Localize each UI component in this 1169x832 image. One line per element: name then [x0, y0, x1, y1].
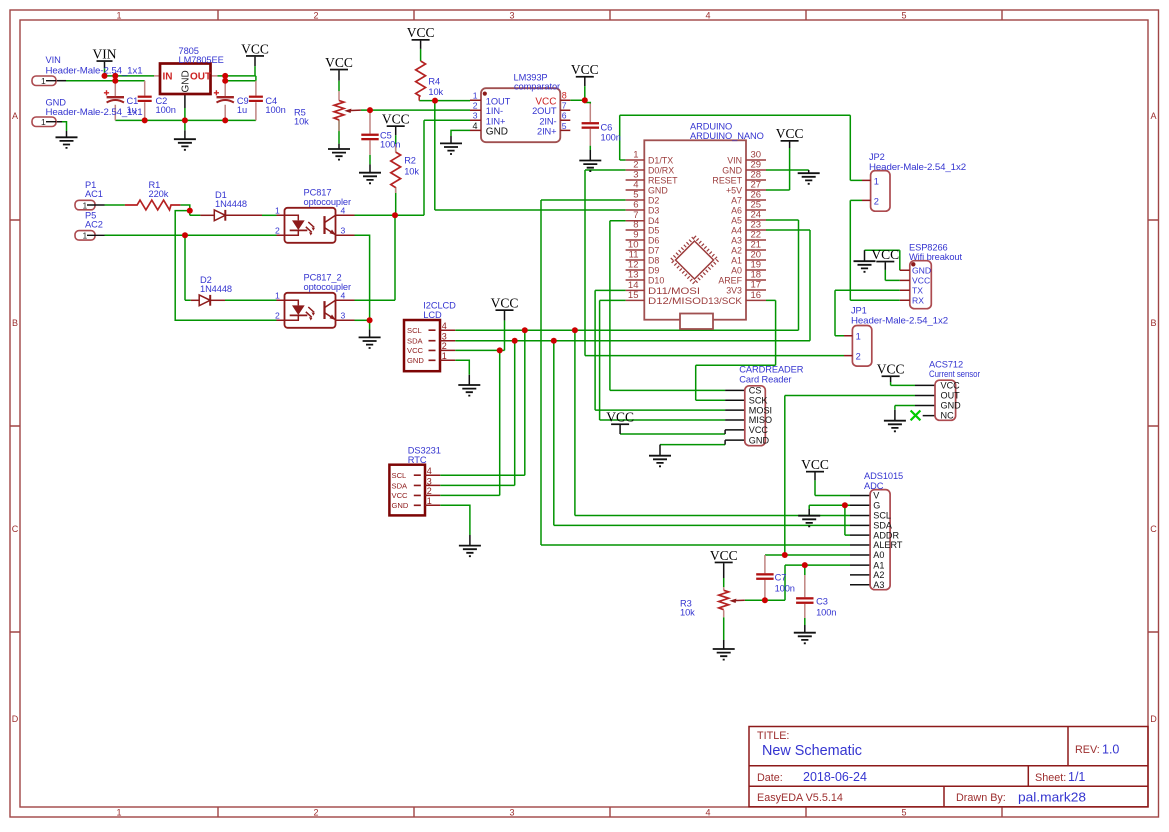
svg-text:C6: C6: [601, 123, 613, 133]
svg-text:3: 3: [442, 332, 447, 342]
C6 leads: [589, 104, 591, 146]
svg-text:GND: GND: [912, 266, 931, 276]
right pin names: [701, 156, 743, 306]
arduino gnd29 stem: [808, 170, 810, 173]
wire LCD GND: [455, 360, 469, 375]
svg-text:optocoupler: optocoupler: [304, 197, 352, 207]
wire 7805 GND to rail and ground: [184, 108, 186, 130]
C5 leads: [369, 110, 371, 155]
frame row letters: [12, 111, 1158, 724]
resistor R4: [416, 61, 444, 97]
svg-text:AREF: AREF: [718, 276, 742, 286]
header P5 (pill): [75, 211, 105, 241]
ADS pin stubs: [850, 496, 870, 585]
ground (C3): [794, 633, 816, 644]
wire arduino GND pin29 to ground: [766, 169, 809, 171]
svg-text:1OUT: 1OUT: [486, 96, 511, 106]
svg-text:1: 1: [83, 231, 88, 241]
svg-text:comparator: comparator: [514, 82, 560, 92]
ground (R3): [713, 649, 735, 660]
svg-text:D8: D8: [648, 256, 659, 266]
vcc flag (R2): [382, 112, 410, 128]
vcc flag (R5): [325, 55, 353, 71]
wire ACS712 OUT to ADS A0: [765, 396, 850, 556]
svg-text:1IN-: 1IN-: [486, 106, 503, 116]
svg-text:2IN+: 2IN+: [537, 126, 557, 136]
wire JP2 pin2 to ESP RX: [850, 200, 900, 300]
VCC stem ACS: [890, 377, 892, 382]
wire D12/MISO to cardreader MISO: [600, 300, 726, 420]
svg-text:Date:: Date:: [757, 772, 783, 784]
R5 ground stem: [338, 144, 340, 149]
resistor R1: [125, 180, 180, 210]
R3 gnd stem: [723, 640, 725, 649]
title block: [749, 727, 1148, 807]
wire cardreader GND: [660, 444, 725, 446]
wire D1 to PC817 pin1: [262, 214, 277, 216]
wire R1 to D1 and branch: [180, 205, 200, 215]
wire PC817 pin4 to 1IN+: [355, 120, 471, 215]
wire AC1 input to R1: [105, 204, 125, 206]
vcc flag (ESP8266): [871, 247, 899, 263]
svg-text:6: 6: [562, 111, 567, 121]
svg-text:6: 6: [633, 200, 638, 211]
svg-text:4: 4: [442, 321, 447, 331]
wire D2 to ADS ALERT: [541, 200, 850, 545]
svg-text:16: 16: [751, 290, 762, 301]
wire GND header to ground: [62, 122, 67, 131]
svg-text:D: D: [12, 714, 19, 724]
ground (ADS G): [798, 516, 820, 527]
svg-text:D9: D9: [648, 266, 659, 276]
svg-text:VIN: VIN: [46, 55, 61, 65]
QFP chip icon: [676, 241, 714, 279]
header VIN (pill): [32, 55, 143, 86]
capacitor C4 leads: [255, 81, 257, 121]
header JP1: [844, 306, 948, 367]
header P1 (pill): [75, 180, 105, 210]
svg-text:VIN: VIN: [727, 156, 742, 166]
wire D2 to PC817_2 pin1: [225, 299, 277, 301]
svg-text:A0: A0: [731, 266, 742, 276]
vcc flag (R3): [710, 548, 738, 564]
svg-text:MOSI: MOSI: [749, 405, 772, 415]
svg-text:2: 2: [473, 101, 478, 111]
svg-text:GND: GND: [392, 501, 409, 510]
PC817 pin3 ground stem: [369, 329, 371, 337]
svg-text:1IN+: 1IN+: [486, 116, 506, 126]
R2 leads: [395, 144, 397, 193]
svg-text:PC817_2: PC817_2: [304, 273, 342, 283]
svg-text:2: 2: [275, 225, 280, 235]
wire LCD VCC net: [440, 320, 504, 495]
left pin numbers: [628, 150, 639, 301]
ground (GND header): [56, 137, 78, 148]
svg-text:VCC: VCC: [407, 346, 424, 355]
svg-text:GND: GND: [407, 356, 424, 365]
svg-text:MISO: MISO: [749, 415, 772, 425]
capacitor C2 leads: [144, 81, 146, 121]
svg-text:1N4448: 1N4448: [215, 199, 247, 209]
cardreader gnd stem: [659, 445, 661, 456]
resistor R2: [391, 152, 420, 188]
vcc flag (ACS712): [877, 362, 905, 378]
svg-text:LCD: LCD: [423, 310, 442, 320]
svg-text:pal.mark28: pal.mark28: [1018, 791, 1086, 805]
svg-text:1: 1: [41, 76, 46, 86]
svg-text:DS3231: DS3231: [408, 446, 441, 456]
svg-text:1: 1: [275, 290, 280, 300]
svg-text:TX: TX: [912, 286, 923, 296]
capacitor C2: [138, 96, 176, 115]
frame column numbers bottom: [116, 808, 906, 818]
svg-text:D0/RX: D0/RX: [648, 166, 674, 176]
wires: arduino area: [435, 101, 862, 545]
wire ACS712 GND: [895, 406, 915, 410]
ESP gnd stem: [864, 250, 866, 261]
svg-text:D10: D10: [648, 276, 664, 286]
rail ground stem: [184, 130, 186, 139]
svg-text:3V3: 3V3: [726, 286, 742, 296]
diode D2: [191, 275, 232, 306]
vcc flag (7805 out): [241, 41, 269, 57]
svg-text:B: B: [12, 318, 18, 328]
svg-text:1: 1: [41, 117, 46, 127]
svg-text:ADDR: ADDR: [873, 530, 899, 540]
regulator U-7805: [160, 46, 224, 94]
svg-text:A1: A1: [731, 256, 742, 266]
svg-text:REV:: REV:: [1075, 744, 1100, 756]
cardreader CS/SCK/MOSI/MISO stubs: [725, 390, 745, 420]
capacitor C4: [249, 96, 286, 115]
connector I2CLCD: [404, 301, 456, 372]
ACS gnd stem: [894, 410, 896, 421]
svg-text:ALERT: ALERT: [873, 540, 903, 550]
header P-GND pin line and drop: [56, 122, 67, 137]
right pin stubs: [746, 160, 766, 300]
ground (PC817 pin3): [359, 337, 381, 348]
LCD VCC stem: [504, 311, 506, 321]
svg-text:OUT: OUT: [941, 391, 961, 401]
ground (DS3231): [459, 546, 481, 557]
capacitor C1: [104, 90, 138, 115]
svg-text:Card Reader: Card Reader: [739, 375, 791, 385]
optocoupler PC817_2: [275, 273, 355, 328]
svg-text:2: 2: [313, 808, 318, 818]
diode D1: [200, 190, 262, 221]
svg-text:C: C: [12, 524, 19, 534]
ground (ACS712): [884, 421, 906, 432]
svg-text:+5V: +5V: [726, 186, 742, 196]
component leads (rose): [115, 76, 805, 618]
ground (arduino pin29): [798, 173, 820, 184]
svg-text:Header-Male-2.54_1x1: Header-Male-2.54_1x1: [46, 66, 143, 76]
ground (LM393P): [440, 143, 462, 154]
wire ACS712 VCC: [891, 382, 915, 385]
svg-text:2: 2: [856, 352, 861, 362]
svg-text:VIN: VIN: [93, 46, 117, 61]
svg-text:optocoupler: optocoupler: [304, 282, 352, 292]
svg-text:A3: A3: [731, 236, 742, 246]
svg-text:5: 5: [562, 121, 567, 131]
wire SDA to ADS: [554, 341, 850, 526]
LM393P gnd stem: [450, 136, 452, 143]
C6 ground stem: [589, 150, 591, 160]
svg-text:SDA: SDA: [407, 337, 424, 346]
svg-text:1: 1: [116, 808, 121, 818]
svg-text:100n: 100n: [816, 608, 836, 618]
wire R5 wiper to 1IN-: [361, 109, 470, 111]
svg-text:100n: 100n: [601, 133, 621, 143]
svg-text:A4: A4: [731, 226, 742, 236]
cardreader VCC/GND pin stubs: [725, 430, 745, 445]
sensor ACS712: [929, 360, 980, 421]
wire branch to PC817_2 pin2: [175, 211, 276, 321]
svg-text:C7: C7: [775, 573, 787, 583]
wire D0/RX to JP1 pin2: [585, 170, 844, 356]
header P-VIN pin line: [56, 80, 66, 82]
wire SCL to ADS: [575, 330, 850, 515]
wire ESP VCC: [885, 270, 900, 281]
svg-text:G: G: [873, 501, 880, 511]
svg-text:NC: NC: [941, 411, 955, 421]
svg-text:R2: R2: [404, 156, 416, 166]
ground (7805 rail): [174, 139, 196, 150]
svg-text:JP2: JP2: [869, 152, 885, 162]
svg-text:D3: D3: [648, 206, 659, 216]
ground (ESP8266): [854, 261, 876, 272]
svg-text:ADS1015: ADS1015: [864, 471, 903, 481]
svg-text:2: 2: [442, 341, 447, 351]
potentiometer R3: [680, 590, 745, 617]
ground (R5): [328, 149, 350, 160]
capacitor C6: [582, 122, 621, 142]
svg-text:GND: GND: [648, 186, 668, 196]
svg-text:GND: GND: [722, 166, 742, 176]
svg-text:A0: A0: [873, 550, 884, 560]
R5 leads: [338, 91, 340, 131]
svg-text:13: 13: [628, 270, 639, 281]
svg-text:JP1: JP1: [851, 306, 867, 316]
svg-text:ADC: ADC: [864, 481, 884, 491]
svg-text:V: V: [873, 491, 880, 501]
svg-text:GND: GND: [749, 435, 770, 445]
svg-text:D: D: [1150, 714, 1157, 724]
right pin numbers: [751, 150, 762, 301]
vcc flag (LM393P pin8): [571, 62, 599, 78]
wire R2 top: [395, 135, 397, 152]
left pin stubs: [626, 160, 645, 300]
svg-text:3: 3: [341, 225, 346, 235]
svg-text:RX: RX: [912, 296, 924, 306]
vcc flag (arduino +5V): [776, 126, 804, 142]
svg-text:1: 1: [83, 200, 88, 210]
svg-text:D6: D6: [648, 236, 659, 246]
svg-text:2: 2: [313, 11, 318, 21]
svg-text:4: 4: [705, 808, 710, 818]
svg-text:EasyEDA V5.5.14: EasyEDA V5.5.14: [757, 792, 843, 804]
wire PC817_2 pin3: [355, 319, 370, 321]
wire arduino +5V to VCC: [766, 148, 790, 190]
svg-text:Wifi breakout: Wifi breakout: [909, 252, 962, 262]
wire C5 bottom: [369, 155, 371, 165]
wire 7805 OUT to VCC/C4: [217, 66, 256, 81]
svg-text:AC1: AC1: [85, 189, 103, 199]
wire LM393P pin8 to VCC and C6: [570, 86, 590, 150]
svg-text:D13/SCK: D13/SCK: [701, 296, 742, 306]
svg-text:VCC: VCC: [749, 425, 769, 435]
VIN flag stem: [104, 62, 106, 68]
svg-text:D11/MOSI: D11/MOSI: [648, 286, 700, 296]
svg-text:8: 8: [562, 91, 567, 101]
svg-text:GND: GND: [181, 70, 192, 92]
capacitor C3: [796, 597, 836, 618]
svg-text:New Schematic: New Schematic: [762, 743, 862, 759]
svg-text:Current sensor: Current sensor: [929, 369, 980, 379]
svg-text:PC817: PC817: [304, 188, 332, 198]
svg-text:D12/MISO: D12/MISO: [648, 296, 701, 306]
wire R5 top/bottom: [338, 81, 340, 144]
svg-text:R4: R4: [428, 77, 440, 87]
svg-text:3: 3: [509, 808, 514, 818]
wire ADS V to VCC: [815, 480, 850, 495]
svg-text:D7: D7: [648, 246, 659, 256]
svg-text:A: A: [12, 111, 18, 121]
svg-text:RTC: RTC: [408, 455, 427, 465]
svg-text:2: 2: [874, 197, 879, 207]
svg-text:17: 17: [751, 280, 762, 291]
svg-text:7: 7: [562, 101, 567, 111]
wire D11/MOSI to cardreader MOSI: [595, 290, 725, 410]
wire ADS G to ground and ADDR: [809, 505, 850, 535]
svg-text:SCL: SCL: [873, 511, 891, 521]
C5 ground stem: [369, 164, 371, 172]
R3 leads: [723, 587, 725, 617]
VCC stem over 7805: [254, 57, 256, 66]
svg-text:GND: GND: [46, 98, 67, 108]
svg-text:C3: C3: [816, 597, 828, 607]
7805 GND pin: [184, 94, 186, 108]
svg-text:A2: A2: [731, 246, 742, 256]
svg-text:B: B: [1150, 318, 1156, 328]
wire DS3231 SCL: [440, 330, 525, 475]
ADS G gnd stem: [808, 509, 810, 516]
potentiometer R5: [294, 101, 361, 127]
svg-text:100n: 100n: [380, 140, 400, 150]
header JP2: [862, 152, 966, 211]
cardreader VCC stem: [619, 425, 621, 434]
svg-text:2OUT: 2OUT: [532, 106, 557, 116]
VCC stem over +5V: [789, 142, 791, 148]
svg-text:1.0: 1.0: [1102, 743, 1119, 757]
svg-text:D1/TX: D1/TX: [648, 156, 673, 166]
wire AC2 to PC817 pin2: [105, 234, 277, 236]
vcc flag (cardreader): [606, 410, 634, 426]
svg-text:SCL: SCL: [392, 471, 407, 480]
svg-text:VCC: VCC: [941, 381, 961, 391]
svg-text:CARDREADER: CARDREADER: [739, 365, 803, 375]
svg-text:Drawn By:: Drawn By:: [956, 792, 1006, 804]
ground (LCD): [458, 385, 480, 396]
svg-text:Header-Male-2.54_1x2: Header-Male-2.54_1x2: [869, 162, 966, 172]
ground (C5): [359, 173, 381, 184]
wire R2 bottom to PC817 pin4 net: [395, 187, 397, 215]
svg-text:220k: 220k: [149, 189, 169, 199]
C3 leads: [804, 575, 806, 618]
VCC stem over R5: [338, 70, 340, 80]
VCC stem R3: [723, 563, 725, 578]
left pin names: [648, 156, 701, 306]
black stems and pin lines: [56, 41, 935, 649]
svg-text:100n: 100n: [156, 105, 176, 115]
svg-text:D5: D5: [648, 226, 659, 236]
frame column numbers top: [116, 11, 906, 21]
wire VIN net to 7805 IN: [105, 68, 155, 81]
ground (cardreader): [649, 456, 671, 467]
wire DS3231 SDA: [440, 341, 515, 486]
wire D13/SCK to cardreader SCK: [696, 300, 776, 400]
svg-text:GND: GND: [941, 401, 962, 411]
USB connector icon: [680, 314, 713, 330]
7805 IN/OUT stubs: [154, 75, 217, 77]
header GND (pill): [32, 98, 143, 128]
svg-text:1N4448: 1N4448: [200, 284, 232, 294]
wire R3 wiper to ADS A1: [745, 565, 850, 600]
wire C3 bottom: [804, 618, 806, 625]
svg-text:SDA: SDA: [392, 481, 409, 490]
comparator U-LM393P: [470, 73, 570, 143]
svg-text:A2: A2: [873, 570, 884, 580]
svg-text:4: 4: [705, 11, 710, 21]
svg-text:ACS712: ACS712: [929, 360, 963, 370]
svg-text:GND: GND: [486, 126, 508, 137]
svg-text:1: 1: [473, 91, 478, 101]
svg-text:10k: 10k: [680, 608, 695, 618]
wire ACS712 OUT: [785, 395, 915, 397]
svg-text:LM7805EE: LM7805EE: [179, 55, 224, 65]
vcc flag (R4): [407, 25, 435, 40]
wire LM393P GND to ground: [451, 130, 470, 136]
wire PC817 pin4 to PC817_2 pin4: [355, 215, 396, 300]
svg-text:2: 2: [427, 486, 432, 496]
svg-text:1: 1: [856, 332, 861, 342]
wire cardreader VCC: [620, 433, 725, 435]
capacitor C9: [214, 90, 249, 115]
svg-text:AC2: AC2: [85, 220, 103, 230]
svg-text:VCC: VCC: [912, 276, 930, 286]
wire PC817 pin3 to ground net: [355, 235, 370, 329]
ACS pin stubs: [915, 385, 935, 415]
connector DS3231: [389, 446, 440, 516]
svg-text:SCK: SCK: [749, 396, 768, 406]
svg-text:IN: IN: [163, 72, 173, 83]
wire AC2 branch to D2: [185, 235, 191, 300]
svg-text:CS: CS: [749, 386, 762, 396]
adc ADS1015: [864, 471, 903, 590]
DS3231 gnd stem: [469, 535, 471, 545]
svg-text:ESP8266: ESP8266: [909, 243, 948, 253]
VIN net flag: [93, 46, 117, 62]
wire D3 to comparator 1OUT: [435, 101, 626, 210]
wire VIN header to C2: [66, 80, 145, 82]
wire DS3231 GND: [440, 505, 470, 535]
svg-text:3: 3: [509, 11, 514, 21]
svg-text:100n: 100n: [265, 105, 285, 115]
vcc flag (ADS V): [801, 457, 829, 473]
wire ESP TX to JP1 pin1: [835, 290, 900, 335]
vcc flag (LCD): [491, 296, 519, 312]
svg-text:5: 5: [901, 11, 906, 21]
